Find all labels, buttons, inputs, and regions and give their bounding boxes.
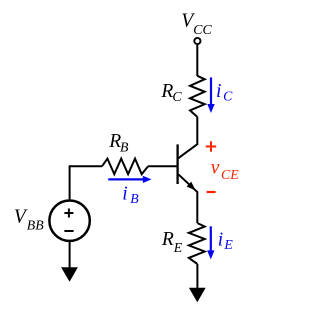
current label iB <box>122 183 139 206</box>
resistor RE <box>189 223 205 264</box>
ground left <box>61 267 78 282</box>
voltage label vCE <box>211 157 240 182</box>
svg-text:E: E <box>223 237 233 252</box>
current arrow iC <box>207 77 214 113</box>
wire VCC terminal to RC <box>196 45 198 76</box>
voltage label plus vCE <box>206 141 216 151</box>
node VCC terminal <box>194 38 200 44</box>
svg-text:C: C <box>172 89 182 104</box>
current label iC <box>216 81 233 104</box>
svg-text:R: R <box>161 229 174 250</box>
resistor RC label <box>160 81 182 104</box>
source VBB <box>49 201 89 241</box>
wire RB to base <box>148 165 177 167</box>
wire VBB to RB <box>70 166 102 199</box>
wire VBB to ground <box>69 242 71 268</box>
svg-text:V: V <box>14 207 28 228</box>
resistor RB label <box>108 131 129 155</box>
svg-text:B: B <box>130 191 139 206</box>
resistor RB <box>102 159 148 175</box>
svg-text:v: v <box>211 157 220 178</box>
svg-text:i: i <box>218 230 223 251</box>
svg-text:B: B <box>120 140 129 155</box>
source VBB label <box>14 207 44 233</box>
node VCC label <box>181 11 212 37</box>
wire RC to collector <box>178 117 197 158</box>
resistor RE label <box>161 229 183 255</box>
svg-text:BB: BB <box>27 218 44 233</box>
wire RE to ground <box>196 264 198 288</box>
current label iE <box>218 230 234 253</box>
wire emitter to RE <box>196 191 198 223</box>
transistor Q1 base bar <box>176 144 178 184</box>
resistor RC <box>190 76 205 117</box>
svg-text:i: i <box>216 81 221 102</box>
transistor Q1 emitter with arrow <box>178 174 197 192</box>
current arrow iE <box>207 226 214 259</box>
svg-text:i: i <box>122 183 127 204</box>
svg-text:C: C <box>223 88 233 103</box>
ground right <box>189 288 206 303</box>
svg-text:CE: CE <box>221 167 239 182</box>
svg-text:CC: CC <box>193 22 212 37</box>
voltage label minus vCE <box>207 191 216 193</box>
svg-text:E: E <box>173 240 183 255</box>
current arrow iB <box>108 176 151 183</box>
